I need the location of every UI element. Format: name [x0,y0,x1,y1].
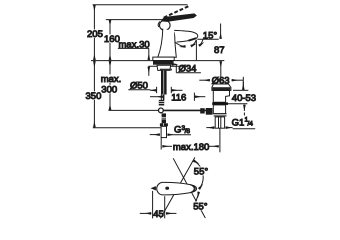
dimension line 205/350 vertical [93,5,95,11]
counter top line [91,60,224,62]
deck hatch dark band [153,61,174,65]
svg-text:55°: 55° [194,167,209,178]
svg-text:55°: 55° [193,202,208,213]
svg-text:G1: G1 [232,117,245,128]
svg-text:87: 87 [214,45,225,56]
dimension 87: top arrow [220,24,222,34]
label 205 [86,29,103,37]
top reference line (raised lever tip level) [93,4,188,6]
160 top tick at lever level [106,19,163,21]
dimension line 160/max300 vertical [109,20,111,26]
G1 1/4 dashed up arrow to coupling line [228,103,247,105]
label 55° bottom [193,201,210,210]
solid lever blade [162,14,197,22]
svg-text:205: 205 [87,29,103,40]
svg-text:160: 160 [104,34,120,45]
svg-text:G: G [174,125,181,136]
drain flange [212,84,231,90]
lower 55 arc with arrows [193,192,198,205]
spout tip extension line [195,40,197,61]
svg-text:350: 350 [86,91,102,102]
swivel arc arrows under spout [175,42,186,47]
drain upper body [213,91,229,103]
swing line upper-left to lower-right [173,158,205,218]
svg-text:300: 300 [101,85,117,96]
mounting nut [157,65,171,70]
label max.300 [100,74,121,82]
rod down to hose block [162,113,166,123]
upper 55 arc with arrows [194,161,204,190]
svg-text:40-53: 40-53 [232,93,256,104]
svg-text:max.180: max.180 [173,142,209,153]
clamp block [160,95,162,101]
coupling dark band [212,102,228,105]
drain lower body [213,105,225,114]
svg-text:116: 116 [171,93,186,104]
aerator [188,38,196,41]
threaded shank [161,71,167,95]
deck underside line [148,65,188,67]
label 55° top [193,167,210,176]
label 350 [85,91,102,99]
svg-text:/4: /4 [248,120,254,127]
dimension 40-53 [233,89,248,91]
svg-text:/8: /8 [185,128,191,135]
spout [174,30,198,42]
swing line lower-left to upper-right [161,157,195,218]
escutcheon base [153,57,174,60]
dimension 87: bottom arrow on drain centerline [220,61,222,84]
svg-text:max.: max. [101,74,122,85]
rod to drain connector blocks [200,108,205,113]
max.300 bottom reference line / pop-up rod [108,109,160,111]
svg-text:45: 45 [153,209,164,220]
dimension Ø63 [199,79,210,81]
hose coupling block [160,123,168,126]
350 bottom reference line with arrow to hose end [93,127,161,129]
body column [158,29,177,58]
knob loop [160,20,171,30]
dimension 45 arrows [140,212,152,214]
handle dome arcs [190,185,194,193]
hose tube [161,126,166,137]
tailpipe [215,117,224,128]
lift arc left of knob [158,22,160,28]
spout tip in top view [151,186,156,190]
svg-text:15°: 15° [203,31,218,42]
dashed raised lever [164,6,189,17]
dimension max.180 [160,138,162,150]
handle indicator dot [165,187,169,190]
tee joint ring [159,108,164,113]
dimension 45 extension lines [152,191,154,219]
label 160 [103,34,117,42]
dimension 116 outside arrows [150,96,163,98]
handle top view [157,182,197,195]
max.30 leader arrows at counter [148,48,150,54]
